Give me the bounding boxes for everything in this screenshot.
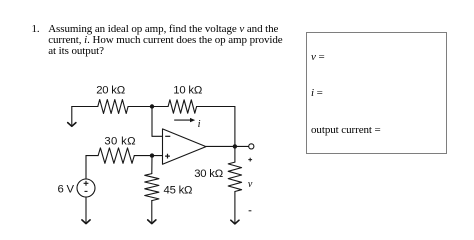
ground 6V arrowhead	[82, 220, 90, 224]
wire 6V bottom vertical	[85, 197, 87, 222]
problem number 1.	[32, 24, 40, 35]
label output current =	[311, 125, 381, 136]
ground 30k arrowhead	[231, 220, 239, 224]
resistor R3 30k (mid) zigzag	[98, 148, 134, 163]
svg-text:20 kΩ: 20 kΩ	[96, 85, 125, 97]
label v =	[311, 52, 325, 63]
output node junction dot	[233, 144, 237, 148]
wire 6V top vertical	[85, 156, 87, 179]
wire between 20k and node A	[128, 106, 152, 108]
svg-text:10 kΩ: 10 kΩ	[173, 85, 202, 97]
v polarity minus sign	[249, 210, 252, 212]
op-amp U1 triangle	[163, 129, 207, 164]
wire node A down to inverting input	[151, 107, 153, 137]
op-amp output wire	[206, 145, 235, 147]
wire 30k to noninverting input	[134, 155, 162, 157]
resistor R2 10k zigzag	[168, 100, 197, 113]
svg-text:v: v	[248, 179, 253, 190]
wire 6V to 30k	[86, 155, 98, 157]
answer box	[306, 32, 447, 154]
wire node A to 10k	[152, 106, 168, 108]
resistor R4 45k zigzag	[145, 174, 159, 201]
ground left: stem	[71, 107, 73, 125]
voltage source V1 circle	[77, 179, 95, 197]
problem statement text	[48, 24, 282, 58]
wire output to terminal	[235, 145, 249, 147]
svg-text:30 kΩ: 30 kΩ	[104, 135, 136, 147]
output terminal open circle	[249, 144, 254, 149]
wire right vertical down to output	[234, 107, 236, 147]
current arrow i shaft	[175, 119, 191, 121]
wire top-left horizontal	[72, 106, 98, 108]
op-amp minus input sign	[165, 135, 170, 137]
svg-text:i: i	[198, 119, 201, 130]
v polarity plus sign	[248, 158, 252, 162]
op-amp plus input sign	[165, 154, 170, 159]
resistor R1 20k zigzag	[98, 100, 128, 114]
svg-text:45 kΩ: 45 kΩ	[164, 184, 193, 196]
wire into inverting input	[152, 135, 163, 137]
node B junction dot	[150, 153, 154, 157]
wire 45k down	[151, 201, 153, 222]
wire 30k right down	[234, 192, 236, 223]
current arrowhead	[190, 118, 195, 122]
label i =	[311, 88, 323, 99]
ground 45k arrowhead	[148, 220, 156, 224]
source plus sign	[84, 181, 89, 186]
node A junction dot	[150, 104, 154, 108]
svg-text:6 V: 6 V	[58, 183, 75, 195]
resistor R5 30k (right) zigzag	[228, 162, 241, 191]
wire output node down to 30k	[234, 146, 236, 162]
ground left: arrowhead	[68, 123, 76, 127]
source minus sign	[85, 190, 88, 192]
wire node B down to 45k	[151, 156, 153, 174]
svg-text:30 kΩ: 30 kΩ	[194, 168, 223, 180]
wire 10k to top-right corner	[197, 106, 235, 108]
